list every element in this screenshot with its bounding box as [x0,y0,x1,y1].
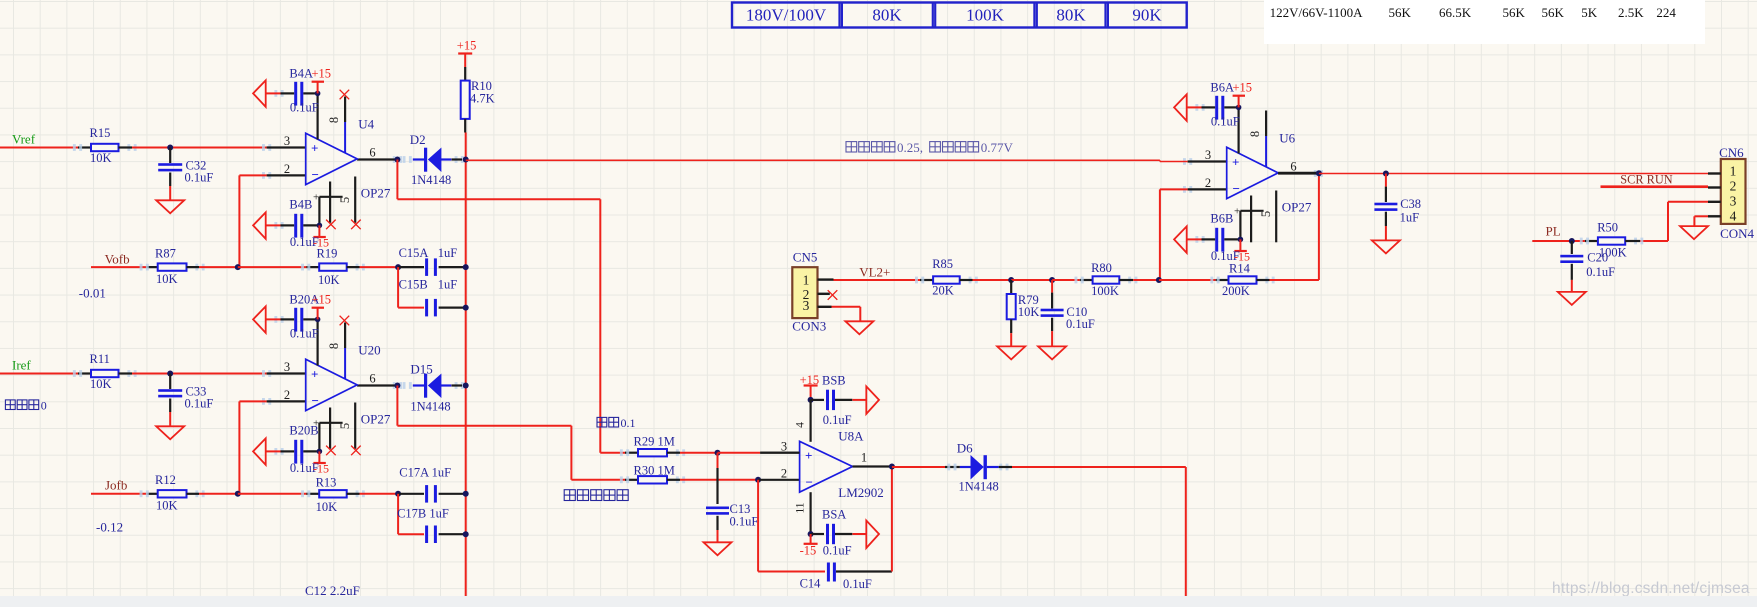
svg-text:2: 2 [1730,179,1737,194]
svg-text:8: 8 [327,343,341,349]
svg-text:−: − [312,167,319,182]
svg-text:OP27: OP27 [1282,200,1312,215]
svg-text:0.1: 0.1 [621,416,636,430]
svg-text:2: 2 [781,467,787,481]
svg-text:+15: +15 [457,39,477,53]
svg-text:4.7K: 4.7K [470,92,495,106]
svg-text:PL: PL [1546,224,1561,239]
svg-text:U6: U6 [1279,131,1295,146]
svg-text:CN5: CN5 [793,250,818,265]
svg-text:B4B: B4B [289,198,312,212]
svg-text:1N4148: 1N4148 [959,480,999,494]
svg-text:B4A: B4A [289,67,313,81]
svg-text:10K: 10K [316,500,338,514]
svg-text:Jofb: Jofb [105,478,127,493]
svg-text:R50: R50 [1597,221,1618,235]
svg-text:8: 8 [327,117,341,123]
svg-text:56K: 56K [1389,5,1412,20]
svg-text:CN6: CN6 [1719,145,1744,160]
svg-text:U20: U20 [358,343,380,358]
svg-text:0.1uF: 0.1uF [1586,265,1615,279]
svg-text:Iref: Iref [12,358,31,373]
svg-text:0.1uF: 0.1uF [1066,317,1095,331]
svg-text:180V/100V: 180V/100V [746,6,827,25]
svg-text:0.1uF: 0.1uF [823,413,852,427]
svg-text:11: 11 [795,502,807,513]
svg-text:56K: 56K [1503,5,1526,20]
svg-text:+: + [313,192,319,204]
svg-text:C38: C38 [1400,197,1421,211]
svg-text:0.1uF: 0.1uF [823,544,852,558]
svg-text:B6A: B6A [1210,81,1234,95]
svg-text:10K: 10K [156,272,178,286]
svg-text:+15: +15 [312,293,332,307]
svg-text:R14: R14 [1229,262,1251,276]
svg-text:0.1uF: 0.1uF [730,515,759,529]
svg-text:3: 3 [1205,148,1211,162]
svg-text:0.1uF: 0.1uF [1211,115,1240,129]
svg-text:80K: 80K [872,6,902,25]
svg-text:20K: 20K [932,284,954,298]
svg-text:D15: D15 [410,362,432,377]
svg-text:0.1uF: 0.1uF [290,101,319,115]
svg-text:R87: R87 [155,247,176,261]
svg-text:+: + [311,140,318,155]
svg-text:1: 1 [861,451,867,465]
svg-text:C20: C20 [1587,251,1608,265]
svg-text:100K: 100K [966,6,1005,25]
svg-text:1: 1 [1730,164,1737,179]
svg-text:3: 3 [284,360,290,374]
svg-text:+: + [1234,206,1240,218]
svg-text:BSA: BSA [822,508,846,522]
svg-text:Vref: Vref [12,132,36,147]
svg-text:U4: U4 [358,117,374,132]
svg-text:1N4148: 1N4148 [410,400,450,414]
svg-text:1uF: 1uF [438,278,458,292]
svg-text:1N4148: 1N4148 [411,173,451,187]
svg-text:VL2+: VL2+ [859,265,890,280]
svg-text:1uF: 1uF [438,246,458,260]
svg-text:8: 8 [1248,131,1262,137]
svg-text:90K: 90K [1132,6,1162,25]
svg-text:CON3: CON3 [792,319,826,334]
svg-text:-0.12: -0.12 [96,520,123,535]
svg-text:SCR RUN: SCR RUN [1620,173,1672,187]
svg-text:B6B: B6B [1210,212,1233,226]
svg-text:5K: 5K [1581,5,1598,20]
svg-text:10K: 10K [90,377,112,391]
svg-text:6: 6 [369,372,375,386]
svg-text:224: 224 [1656,5,1676,20]
svg-text:10K: 10K [1018,305,1040,319]
svg-text:10K: 10K [90,151,112,165]
svg-text:OP27: OP27 [361,412,391,427]
svg-text:CON4: CON4 [1720,226,1754,241]
svg-text:+: + [311,366,318,381]
svg-text:R19: R19 [317,247,338,261]
svg-text:80K: 80K [1056,6,1086,25]
svg-text:6: 6 [369,146,375,160]
svg-text:−: − [1233,181,1240,196]
svg-text:4: 4 [795,422,807,428]
svg-text:0.25,: 0.25, [897,140,923,155]
svg-text:122V/66V-1100A: 122V/66V-1100A [1270,5,1364,20]
svg-text:0.1uF: 0.1uF [185,397,214,411]
svg-text:Vofb: Vofb [105,252,130,267]
svg-text:R29 1M: R29 1M [634,435,675,449]
svg-text:3: 3 [803,298,810,313]
svg-text:R13: R13 [316,476,337,490]
svg-text:C17A 1uF: C17A 1uF [399,466,451,480]
svg-text:2: 2 [284,388,290,402]
svg-text:10K: 10K [156,499,178,513]
svg-text:+: + [1232,154,1239,169]
svg-text:2: 2 [284,162,290,176]
svg-text:+15: +15 [1233,81,1253,95]
svg-text:OP27: OP27 [361,186,391,201]
svg-text:0.1uF: 0.1uF [290,327,319,341]
svg-text:R80: R80 [1091,261,1112,275]
svg-text:0.77V: 0.77V [981,140,1014,155]
svg-text:1: 1 [803,272,810,287]
svg-text:10K: 10K [318,273,340,287]
svg-text:-15: -15 [313,462,329,476]
svg-text:C14: C14 [800,577,822,591]
svg-text:R15: R15 [90,126,111,140]
svg-text:-15: -15 [800,544,817,558]
svg-text:56K: 56K [1542,5,1565,20]
svg-text:3: 3 [781,440,787,454]
svg-text:4: 4 [1730,209,1737,224]
svg-text:2: 2 [1205,176,1211,190]
svg-text:0.1uF: 0.1uF [843,577,872,591]
svg-text:U8A: U8A [838,429,864,444]
svg-text:66.5K: 66.5K [1439,5,1472,20]
svg-text:1uF: 1uF [1400,211,1420,225]
svg-text:LM2902: LM2902 [838,485,884,500]
svg-text:−: − [806,474,813,489]
svg-text:100K: 100K [1091,284,1119,298]
svg-text:-0.01: -0.01 [79,286,106,301]
svg-text:C15A: C15A [399,246,429,260]
svg-text:+: + [805,448,812,463]
svg-text:D2: D2 [410,132,426,147]
svg-text:C15B: C15B [399,278,428,292]
svg-text:+15: +15 [312,67,332,81]
svg-text:6: 6 [1290,160,1296,174]
svg-text:R85: R85 [932,257,953,271]
svg-text:C17B 1uF: C17B 1uF [397,507,449,521]
svg-text:R12: R12 [155,473,176,487]
svg-text:2.5K: 2.5K [1618,5,1644,20]
svg-text:0.1uF: 0.1uF [185,171,214,185]
svg-text:0: 0 [41,399,47,413]
svg-text:3: 3 [1730,193,1737,208]
svg-text:B20B: B20B [289,424,318,438]
svg-text:D6: D6 [957,441,973,456]
svg-text:BSB: BSB [822,374,846,388]
svg-text:R11: R11 [90,352,110,366]
svg-text:200K: 200K [1222,284,1250,298]
svg-text:3: 3 [284,134,290,148]
svg-text:−: − [312,393,319,408]
